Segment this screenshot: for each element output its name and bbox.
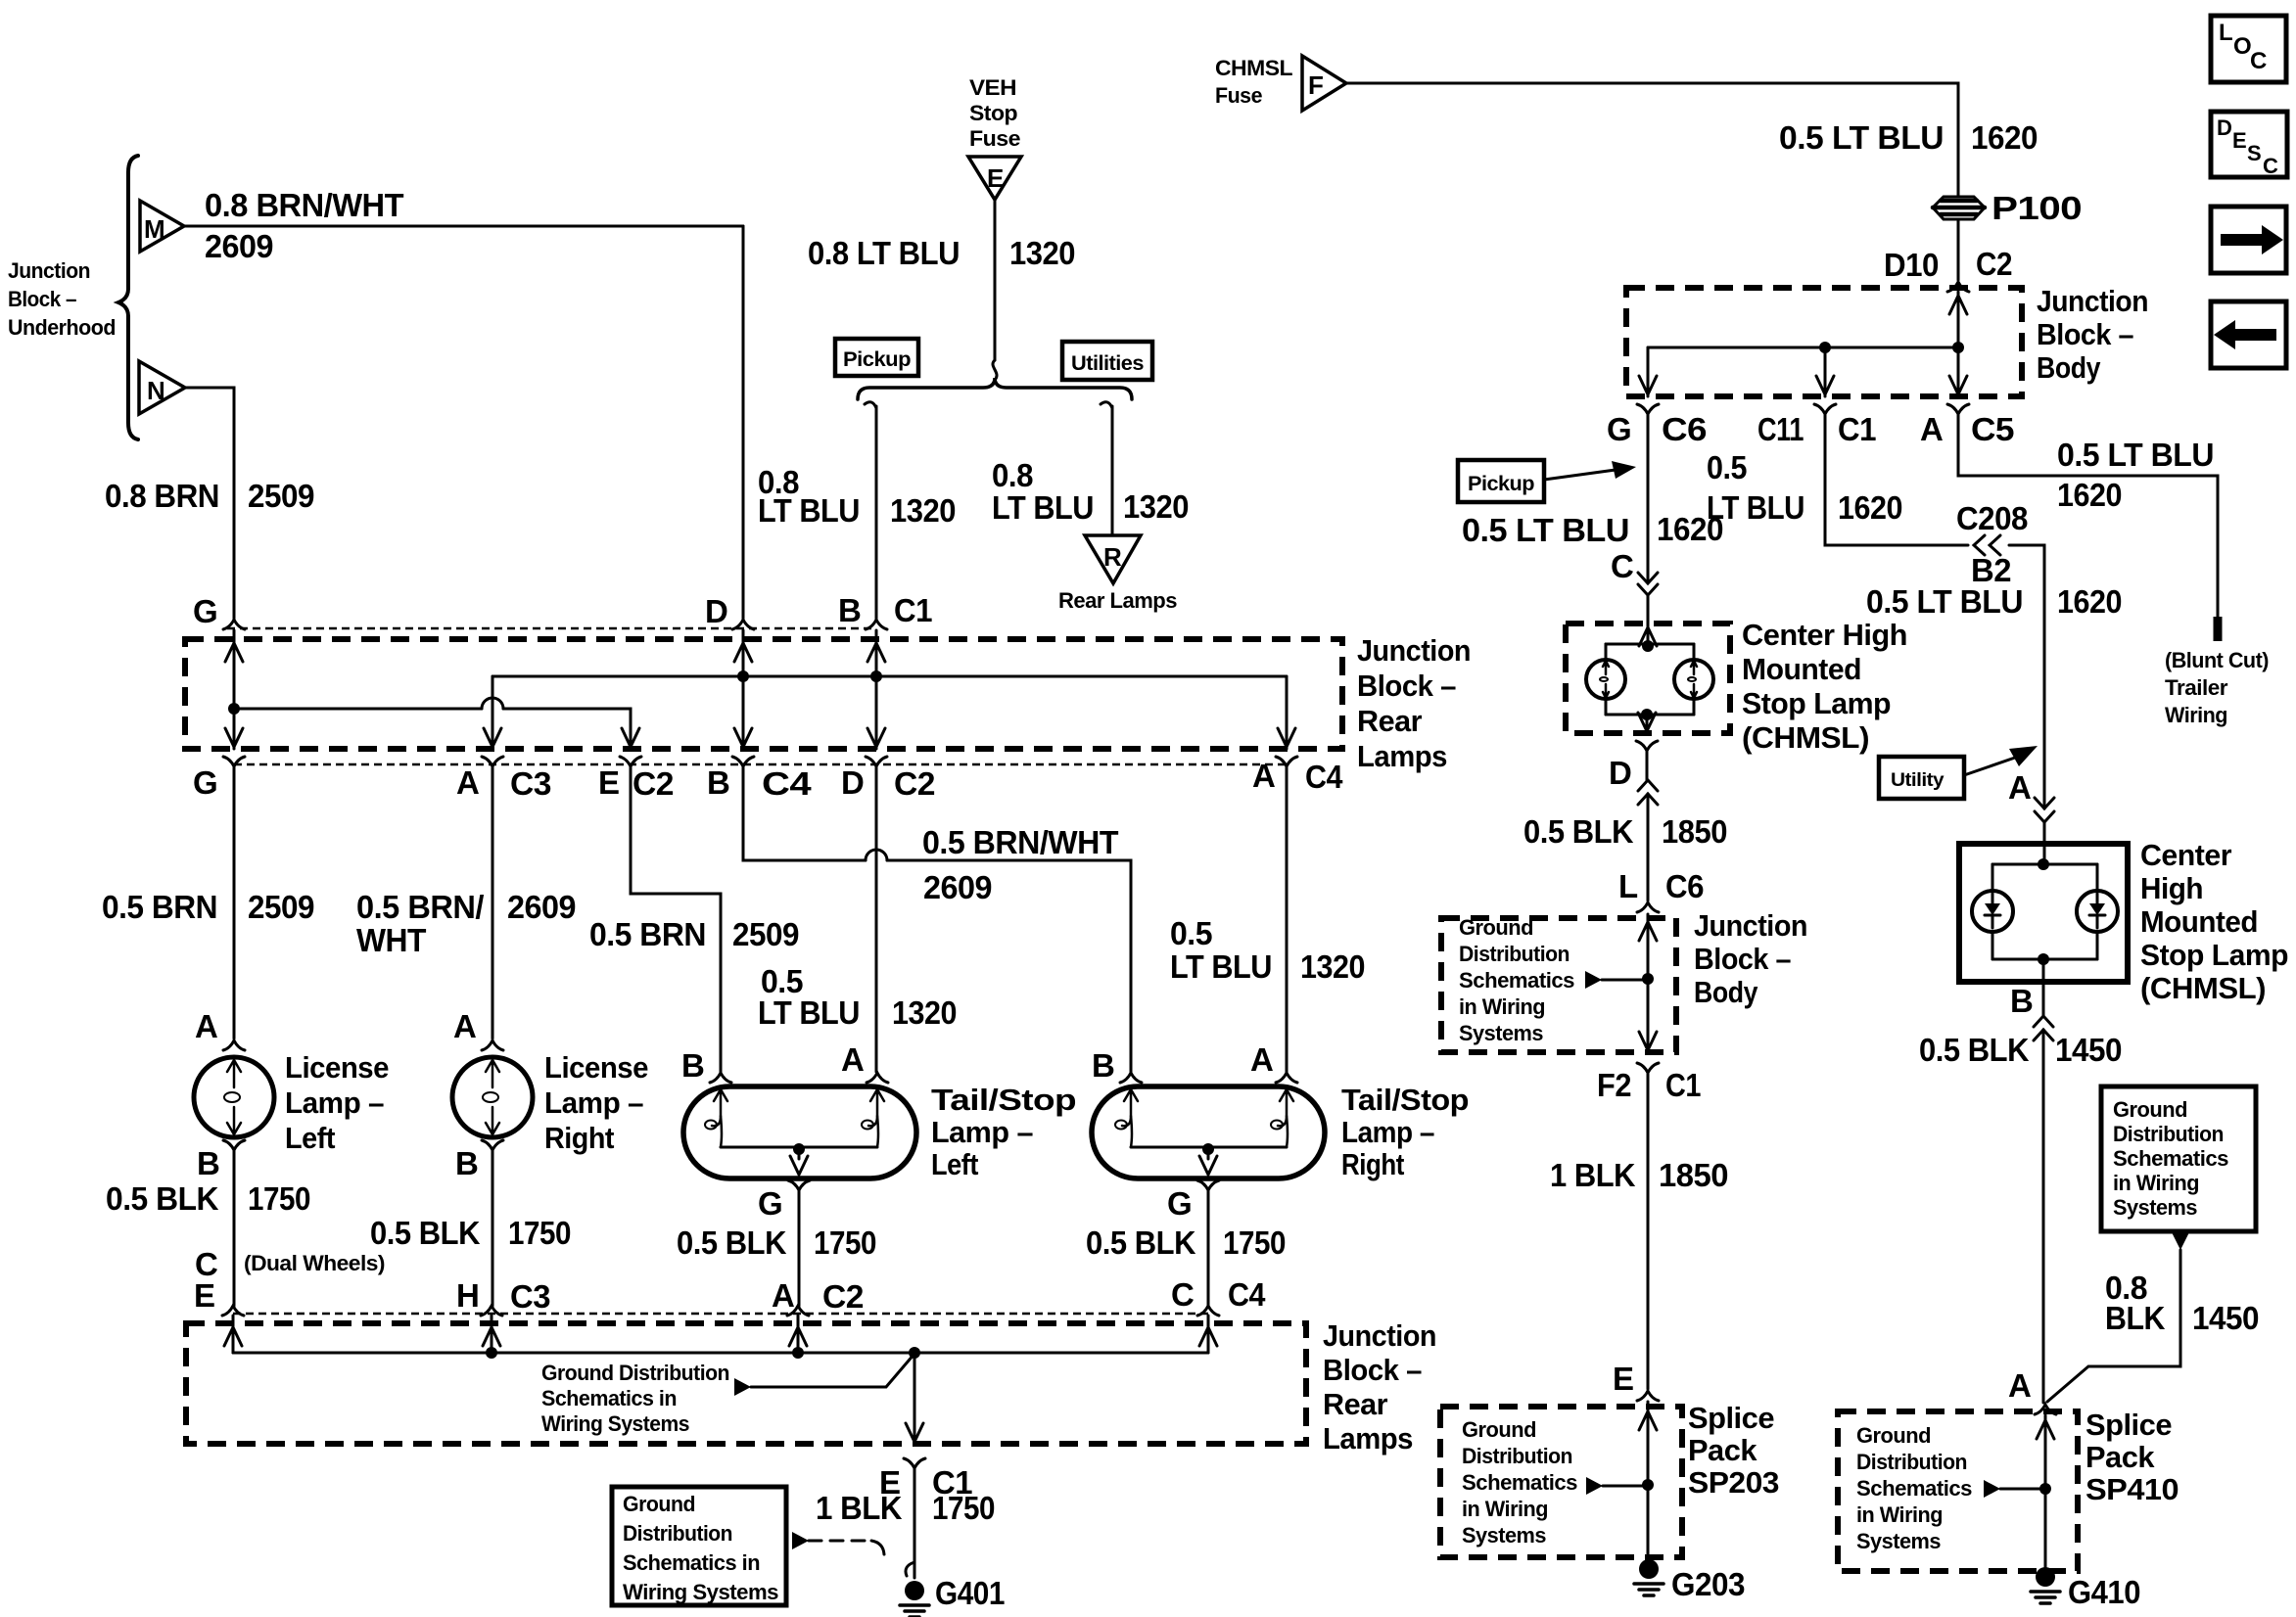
- svg-text:in Wiring: in Wiring: [1856, 1502, 1943, 1527]
- svg-text:Stop: Stop: [969, 101, 1017, 125]
- svg-text:1620: 1620: [1838, 489, 1902, 526]
- svg-text:Pickup: Pickup: [1468, 473, 1534, 495]
- svg-text:C3: C3: [510, 765, 551, 802]
- svg-text:0.8: 0.8: [992, 457, 1033, 493]
- connector A tail/stop lamp right: [1276, 1073, 1297, 1083]
- callout arrow body block: [1585, 971, 1602, 989]
- connector G tail/stop right: [1197, 1180, 1219, 1190]
- svg-text:Block –: Block –: [1357, 669, 1456, 703]
- svg-text:Rear: Rear: [1323, 1387, 1387, 1421]
- svg-text:C: C: [1611, 548, 1633, 584]
- svg-text:0.5 BLK: 0.5 BLK: [1919, 1032, 2030, 1068]
- wire bus drop A/C3: [492, 676, 494, 749]
- svg-text:Systems: Systems: [1856, 1529, 1941, 1553]
- ground distribution dashed callout: [792, 1532, 809, 1549]
- icon box right-arrow: [2211, 207, 2286, 273]
- wire chmsl right ground 0.5 BLK 1450: [2042, 1030, 2045, 1403]
- svg-text:A: A: [456, 764, 479, 801]
- svg-text:Schematics in: Schematics in: [541, 1386, 677, 1410]
- svg-text:C208: C208: [1956, 500, 2028, 536]
- svg-text:VEH: VEH: [969, 75, 1016, 100]
- svg-text:Left: Left: [931, 1147, 978, 1181]
- connector B tail/stop lamp right: [1120, 1073, 1142, 1083]
- svg-text:Utilities: Utilities: [1071, 352, 1144, 375]
- svg-text:2509: 2509: [248, 478, 314, 514]
- svg-text:1620: 1620: [2057, 583, 2122, 620]
- svg-text:Schematics: Schematics: [1462, 1470, 1577, 1495]
- utility option box: [1879, 757, 1964, 799]
- svg-text:C1: C1: [1665, 1067, 1701, 1103]
- wire body block drop A/C5: [1957, 347, 1960, 396]
- junction dot body lower: [1642, 973, 1654, 985]
- connector D chmsl: [1636, 741, 1658, 751]
- svg-text:B: B: [2010, 983, 2033, 1019]
- center high mounted stop lamp dashed box: [1566, 624, 1730, 733]
- svg-text:D: D: [705, 593, 727, 629]
- inline connector below B: [2042, 982, 2045, 1016]
- license lamp left bulb: [194, 1057, 274, 1137]
- connector B/C1 top: [866, 620, 887, 629]
- connector A/C2 bottom block: [787, 1306, 809, 1316]
- svg-text:A: A: [1252, 758, 1275, 794]
- ground G203: [1639, 1559, 1659, 1579]
- svg-text:L: L: [2219, 20, 2232, 46]
- connector D top: [732, 620, 754, 629]
- svg-text:1850: 1850: [1662, 813, 1727, 850]
- tail/stop lamp right internal ground wire: [1131, 1146, 1287, 1149]
- connector E/C1: [904, 1458, 925, 1468]
- chmsl internal bottom bus: [1606, 714, 1694, 716]
- svg-text:Block –: Block –: [1323, 1353, 1422, 1387]
- svg-text:R: R: [1103, 542, 1122, 572]
- ground bus lower block: [233, 1352, 1208, 1355]
- svg-text:Distribution: Distribution: [1856, 1450, 1967, 1474]
- callout wire 0.8 BLK 1450: [2047, 1250, 2180, 1402]
- connector G tail/stop left: [788, 1180, 810, 1190]
- svg-text:A: A: [195, 1008, 217, 1044]
- svg-text:C: C: [2263, 154, 2278, 178]
- svg-text:D: D: [1609, 755, 1631, 791]
- svg-text:0.8 BRN: 0.8 BRN: [105, 478, 219, 514]
- svg-text:Stop Lamp: Stop Lamp: [2140, 938, 2288, 972]
- svg-text:D: D: [2217, 115, 2231, 140]
- wire license left B 0.5 BLK 1750: [233, 1150, 236, 1306]
- svg-text:C: C: [1171, 1276, 1194, 1313]
- svg-text:C2: C2: [1976, 246, 2012, 282]
- svg-text:2509: 2509: [248, 889, 314, 925]
- svg-text:(CHMSL): (CHMSL): [2140, 971, 2266, 1005]
- connector A SP410: [2035, 1405, 2056, 1414]
- svg-text:in Wiring: in Wiring: [1459, 994, 1545, 1019]
- svg-text:Fuse: Fuse: [1215, 83, 1262, 108]
- wire G through block: [233, 630, 236, 749]
- wire B/C4 to tail lamp right 0.5 BRN/WHT 2609: [743, 766, 866, 860]
- svg-text:Left: Left: [285, 1121, 335, 1155]
- svg-text:Distribution: Distribution: [623, 1521, 732, 1546]
- wire 1 BLK 1850 to SP203: [1647, 1073, 1650, 1389]
- svg-text:C2: C2: [822, 1278, 864, 1315]
- svg-text:Ground Distribution: Ground Distribution: [541, 1361, 729, 1385]
- svg-text:2509: 2509: [732, 916, 799, 952]
- wire into SP203: [1647, 1402, 1650, 1559]
- callout arrow SP410: [1984, 1480, 2000, 1498]
- connector G top: [223, 620, 245, 629]
- svg-text:1450: 1450: [2192, 1300, 2259, 1336]
- svg-text:C2: C2: [633, 765, 674, 802]
- svg-text:1450: 1450: [2055, 1032, 2122, 1068]
- svg-text:1320: 1320: [1300, 948, 1365, 985]
- svg-text:D: D: [841, 764, 864, 801]
- junction block rear lamps dashed box: [185, 639, 1342, 749]
- svg-text:G: G: [1167, 1185, 1192, 1222]
- wire G/C6 0.5 LT BLU 1620: [1647, 414, 1650, 582]
- destination triangle R rear lamps: [1085, 535, 1141, 583]
- svg-text:Junction: Junction: [8, 258, 90, 283]
- svg-text:C2: C2: [894, 765, 935, 802]
- tail/stop lamp right body: [1092, 1086, 1325, 1178]
- svg-text:Splice: Splice: [1688, 1401, 1774, 1435]
- thin connector line top of lower rear lamps block: [233, 1313, 1208, 1316]
- svg-text:Ground: Ground: [1856, 1423, 1931, 1448]
- svg-text:1 BLK: 1 BLK: [816, 1490, 903, 1526]
- option box Utilities: [1062, 342, 1152, 380]
- svg-text:A: A: [772, 1277, 794, 1314]
- svg-text:1750: 1750: [814, 1224, 876, 1261]
- svg-text:C6: C6: [1662, 411, 1707, 447]
- svg-text:Block –: Block –: [1694, 942, 1791, 976]
- connector A/C5: [1947, 404, 1969, 414]
- wire through body lower block: [1647, 914, 1650, 1052]
- svg-text:G: G: [193, 593, 217, 629]
- svg-text:Ground: Ground: [1459, 915, 1533, 940]
- svg-text:Lamp –: Lamp –: [1341, 1115, 1434, 1149]
- junction dot D bus: [737, 670, 749, 682]
- svg-text:Lamp –: Lamp –: [931, 1115, 1033, 1149]
- wire into right chmsl: [2043, 822, 2046, 864]
- wire into SP410: [2044, 1415, 2047, 1567]
- svg-text:Junction: Junction: [1694, 908, 1807, 943]
- svg-text:0.5 LT BLU: 0.5 LT BLU: [1866, 583, 2023, 620]
- svg-text:CHMSL: CHMSL: [1215, 56, 1292, 80]
- svg-text:C11: C11: [1757, 411, 1804, 447]
- svg-text:G: G: [1607, 411, 1631, 447]
- svg-text:(CHMSL): (CHMSL): [1742, 720, 1869, 755]
- tail/stop lamp left bulb at pin: [868, 1089, 884, 1126]
- svg-text:0.5 LT BLU: 0.5 LT BLU: [1779, 119, 1944, 156]
- svg-text:(Dual Wheels): (Dual Wheels): [244, 1251, 385, 1275]
- wire E/C1 exit lower block: [914, 1353, 916, 1444]
- wire 0.8 LT BLU 1320 from fuse E: [994, 200, 997, 360]
- svg-text:Systems: Systems: [1462, 1523, 1546, 1548]
- wire A/C2 into lower block: [797, 1316, 800, 1353]
- wire A/C5 0.5 LT BLU 1620 blunt cut: [1958, 414, 2218, 619]
- svg-text:1320: 1320: [892, 994, 957, 1031]
- svg-text:Utility: Utility: [1891, 770, 1945, 791]
- svg-text:F: F: [1308, 70, 1323, 100]
- svg-text:2609: 2609: [507, 889, 576, 925]
- svg-text:B: B: [838, 592, 861, 628]
- connector G/C6: [1637, 404, 1659, 414]
- chmsl bulb left: [1586, 660, 1625, 699]
- fuse triangle E: [968, 157, 1021, 200]
- svg-text:G203: G203: [1671, 1566, 1745, 1602]
- wire chmsl exit: [1646, 715, 1649, 733]
- svg-text:Right: Right: [544, 1121, 614, 1155]
- ground G401: [905, 1581, 924, 1600]
- svg-text:SP410: SP410: [2085, 1472, 2179, 1506]
- chmsl right led left: [1972, 891, 2013, 932]
- wire P100 to junction block body: [1957, 221, 1960, 280]
- wire utilities branch 0.8 LT BLU 1320: [1101, 402, 1112, 408]
- svg-text:Body: Body: [2037, 350, 2101, 385]
- connector D10/C2: [1947, 282, 1969, 292]
- svg-text:Ground: Ground: [1462, 1417, 1536, 1442]
- svg-text:Junction: Junction: [1357, 633, 1471, 668]
- brace junction block underhood: [118, 156, 138, 439]
- svg-text:in Wiring: in Wiring: [2113, 1171, 2199, 1195]
- junction dot G bus: [228, 703, 240, 715]
- connector triangle M: [140, 201, 184, 252]
- svg-text:0.5: 0.5: [1170, 915, 1212, 951]
- tail/stop lamp left bulb at pin: [712, 1089, 727, 1126]
- connector triangle N: [139, 361, 185, 414]
- svg-text:C: C: [2250, 48, 2267, 74]
- svg-text:B: B: [197, 1145, 219, 1181]
- junction block body dashed box: [1626, 288, 2022, 396]
- svg-text:1750: 1750: [932, 1490, 995, 1526]
- svg-text:E: E: [987, 163, 1004, 193]
- wire C11/C1 0.5 LT BLU 1620: [1825, 414, 2044, 808]
- svg-text:Body: Body: [1694, 975, 1758, 1009]
- connector L/C6: [1637, 902, 1659, 912]
- connector D/C2: [866, 757, 887, 766]
- junction dot A bus: [792, 1347, 804, 1359]
- connector C11/C1: [1814, 404, 1836, 414]
- svg-text:Center: Center: [2140, 838, 2231, 872]
- svg-text:LT BLU: LT BLU: [992, 489, 1094, 526]
- svg-text:Wiring Systems: Wiring Systems: [541, 1411, 689, 1436]
- ground distribution schematics box (right): [2101, 1086, 2256, 1231]
- option box Pickup (right): [1458, 460, 1544, 502]
- svg-text:Fuse: Fuse: [969, 126, 1020, 151]
- wire into body block from C2: [1957, 292, 1960, 347]
- svg-text:Systems: Systems: [2113, 1195, 2197, 1220]
- tail/stop lamp left internal ground wire: [721, 1146, 877, 1149]
- svg-text:0.5 BLK: 0.5 BLK: [1523, 813, 1634, 850]
- svg-text:Block –: Block –: [8, 287, 76, 311]
- svg-text:WHT: WHT: [356, 922, 426, 958]
- svg-text:Junction: Junction: [1323, 1318, 1436, 1353]
- svg-text:Lamp –: Lamp –: [285, 1086, 384, 1120]
- svg-text:A: A: [453, 1008, 476, 1044]
- inline connector C208 chevrons: [1974, 535, 1985, 555]
- svg-text:A: A: [1920, 411, 1943, 447]
- svg-text:0.5 BLK: 0.5 BLK: [677, 1224, 787, 1261]
- bus inside body block: [1648, 346, 1958, 349]
- svg-text:C4: C4: [762, 765, 812, 802]
- callout triangle down from box: [2172, 1232, 2189, 1250]
- wire E/C2 to tail lamp left 0.5 BRN 2509: [631, 766, 721, 1072]
- svg-text:A: A: [1250, 1041, 1273, 1078]
- option box Pickup: [835, 339, 918, 376]
- svg-text:Wiring Systems: Wiring Systems: [623, 1580, 778, 1604]
- junction block rear lamps lower dashed box: [186, 1323, 1306, 1444]
- svg-text:Distribution: Distribution: [1462, 1444, 1572, 1468]
- svg-text:Lamp –: Lamp –: [544, 1086, 643, 1120]
- svg-text:Rear: Rear: [1357, 704, 1422, 738]
- svg-text:Distribution: Distribution: [1459, 942, 1570, 966]
- svg-text:Pickup: Pickup: [843, 348, 911, 371]
- svg-text:C4: C4: [1228, 1276, 1266, 1313]
- wire D drop from M: [742, 226, 745, 619]
- connector B/C4: [732, 757, 754, 766]
- svg-text:C3: C3: [510, 1278, 550, 1315]
- svg-text:1620: 1620: [2057, 477, 2122, 513]
- junction dot SP410: [2039, 1483, 2051, 1495]
- svg-text:Distribution: Distribution: [2113, 1122, 2224, 1146]
- wire M 0.8 BRN/WHT 2609: [184, 225, 743, 228]
- svg-text:Schematics: Schematics: [1856, 1476, 1972, 1501]
- svg-text:Block –: Block –: [2037, 317, 2133, 351]
- svg-text:Rear Lamps: Rear Lamps: [1058, 588, 1177, 613]
- tail/stop lamp left body: [683, 1086, 916, 1178]
- bus rear lamps block upper: [492, 675, 1287, 678]
- svg-text:High: High: [2140, 871, 2203, 905]
- wire D through block: [742, 630, 745, 749]
- connector A/C4: [1276, 757, 1297, 766]
- wire chmsl right exit: [2042, 959, 2045, 982]
- inline connector below D: [1646, 751, 1649, 780]
- license lamp right bulb: [452, 1057, 533, 1137]
- wire G to license lamp left 0.5 BRN 2509: [233, 766, 236, 1039]
- svg-text:1320: 1320: [1123, 488, 1189, 525]
- splice pack SP410 dashed box: [1838, 1411, 2078, 1571]
- connector G bottom: [223, 757, 245, 766]
- connector F2/C1: [1637, 1063, 1659, 1073]
- svg-text:E: E: [1613, 1361, 1634, 1397]
- svg-text:2609: 2609: [923, 869, 992, 905]
- svg-text:C1: C1: [1838, 411, 1876, 447]
- svg-text:N: N: [147, 376, 164, 405]
- svg-text:1750: 1750: [1223, 1224, 1286, 1261]
- svg-text:1 BLK: 1 BLK: [1550, 1157, 1636, 1193]
- svg-text:E: E: [194, 1277, 215, 1314]
- connector H/C3 bottom block: [481, 1306, 502, 1316]
- connector E SP203: [1637, 1391, 1659, 1401]
- svg-text:1750: 1750: [508, 1215, 571, 1251]
- svg-text:Schematics: Schematics: [1459, 968, 1574, 993]
- wire chmsl fuse to P100 0.5 LT BLU 1620: [1346, 83, 1958, 196]
- option split brace: [858, 378, 1132, 399]
- svg-text:Wiring: Wiring: [2165, 703, 2227, 727]
- svg-text:0.5 BLK: 0.5 BLK: [370, 1215, 481, 1251]
- svg-text:0.5 BRN/WHT: 0.5 BRN/WHT: [922, 824, 1118, 860]
- junction dot SP203: [1642, 1479, 1654, 1491]
- svg-text:P100: P100: [1991, 190, 2082, 226]
- svg-text:E: E: [2232, 128, 2246, 153]
- svg-text:C6: C6: [1665, 868, 1704, 904]
- svg-text:H: H: [456, 1277, 479, 1314]
- connector B tail/stop lamp left: [710, 1073, 731, 1083]
- wire tail/stop left ground 0.5 BLK 1750: [798, 1190, 801, 1306]
- wire tail/stop right ground 0.5 BLK 1750: [1207, 1190, 1210, 1306]
- svg-text:Right: Right: [1341, 1147, 1404, 1181]
- wire bus drop E/C2 arrow: [622, 728, 639, 747]
- chmsl right internal top bus: [1992, 863, 2097, 866]
- chmsl bulb right: [1674, 660, 1713, 699]
- svg-text:B: B: [707, 764, 729, 801]
- pass-through grommet P100: [1933, 197, 1985, 219]
- svg-text:Schematics: Schematics: [2113, 1146, 2228, 1171]
- svg-text:in Wiring: in Wiring: [1462, 1497, 1548, 1521]
- wire body block drop C11/C1: [1824, 347, 1827, 396]
- wire to G401: [914, 1468, 916, 1578]
- wire pickup branch 0.8 LT BLU 1320: [865, 402, 876, 408]
- svg-text:License: License: [544, 1050, 648, 1085]
- junction dot H bus: [486, 1347, 497, 1359]
- ground distribution schematics box (left): [612, 1487, 786, 1605]
- wire chmsl ground 0.5 BLK 1850: [1647, 794, 1650, 901]
- svg-text:1850: 1850: [1659, 1157, 1728, 1193]
- svg-text:C1: C1: [894, 592, 932, 628]
- wire N 0.8 BRN 2509: [185, 388, 234, 619]
- svg-text:0.5 BLK: 0.5 BLK: [106, 1180, 219, 1217]
- wire D/C2 to tail lamp left A 0.5 LT BLU 1320: [875, 766, 878, 1072]
- svg-text:G: G: [758, 1185, 782, 1222]
- thin connector line bottom of rear lamps block: [234, 763, 1287, 766]
- svg-text:Lamps: Lamps: [1323, 1421, 1413, 1455]
- svg-text:B: B: [455, 1145, 478, 1181]
- wire A/C4 to tail lamp right A 0.5 LT BLU 1320: [1286, 766, 1289, 1072]
- svg-text:Mounted: Mounted: [1742, 652, 1861, 686]
- svg-text:LT BLU: LT BLU: [758, 994, 860, 1031]
- svg-text:Lamps: Lamps: [1357, 739, 1447, 773]
- wire body block drop G/C6: [1647, 347, 1650, 396]
- svg-text:2609: 2609: [205, 228, 273, 264]
- svg-text:D10: D10: [1884, 247, 1939, 283]
- junction dot E/C1 bus: [909, 1347, 920, 1359]
- svg-text:B: B: [681, 1047, 704, 1084]
- svg-text:F2: F2: [1597, 1067, 1631, 1103]
- utility callout arrow: [1964, 758, 2015, 775]
- connector E bottom block: [222, 1306, 244, 1316]
- connector A license lamp right: [482, 1040, 503, 1050]
- svg-text:Ground: Ground: [2113, 1097, 2187, 1122]
- splice pack SP203 dashed box: [1440, 1407, 1682, 1557]
- svg-text:License: License: [285, 1050, 389, 1085]
- svg-text:Schematics in: Schematics in: [623, 1550, 760, 1575]
- wire into chmsl: [1647, 624, 1650, 644]
- chmsl right led right: [2077, 891, 2118, 932]
- junction block body lower dashed box: [1441, 918, 1676, 1052]
- ground distribution callout arrow: [734, 1378, 751, 1396]
- svg-text:A: A: [841, 1041, 864, 1078]
- junction dot C1 bus: [870, 670, 882, 682]
- svg-text:BLK: BLK: [2105, 1300, 2166, 1336]
- connector A license lamp left: [223, 1040, 245, 1050]
- svg-text:Tail/Stop: Tail/Stop: [931, 1083, 1076, 1117]
- svg-text:G410: G410: [2068, 1574, 2140, 1610]
- icon box left-arrow: [2211, 301, 2286, 368]
- wire H/C3 into lower block: [491, 1316, 493, 1353]
- svg-text:L: L: [1618, 868, 1638, 904]
- pickup callout arrow: [1544, 470, 1616, 480]
- svg-text:B: B: [1092, 1047, 1114, 1084]
- svg-text:0.5 LT BLU: 0.5 LT BLU: [2057, 437, 2214, 473]
- svg-text:1620: 1620: [1971, 119, 2038, 156]
- connector A tail/stop lamp left: [867, 1073, 888, 1083]
- tail/stop lamp right bulb at pin: [1122, 1089, 1138, 1126]
